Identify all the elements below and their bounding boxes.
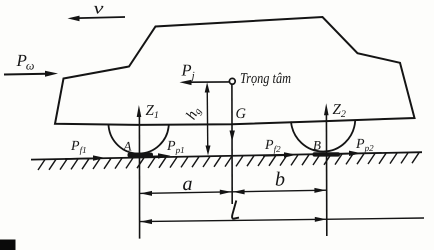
svg-text:B: B xyxy=(313,138,321,153)
svg-text:Trọng tâm: Trọng tâm xyxy=(240,71,291,87)
velocity arrow xyxy=(68,16,126,22)
svg-text:Pj: Pj xyxy=(181,61,195,83)
wheel B arc xyxy=(291,121,355,152)
force P_p2 arrow xyxy=(329,151,362,156)
svg-text:v: v xyxy=(94,0,105,18)
ground line xyxy=(31,152,422,159)
svg-text:G: G xyxy=(236,106,247,122)
dimension h_g double arrow xyxy=(205,82,211,155)
label L xyxy=(232,201,239,219)
svg-text:Pf2: Pf2 xyxy=(264,138,281,154)
force Z2 arrow with projection line xyxy=(324,103,329,236)
ground hatching xyxy=(38,153,419,170)
center of gravity circle (Trong tam) xyxy=(229,78,235,84)
force P_p1 arrow xyxy=(141,153,171,158)
svg-text:Pω: Pω xyxy=(16,51,35,73)
wheel B contact patch xyxy=(313,152,341,156)
svg-text:Pp2: Pp2 xyxy=(355,137,374,153)
svg-text:a: a xyxy=(183,173,193,195)
svg-text:b: b xyxy=(275,169,285,191)
svg-text:Z1: Z1 xyxy=(146,103,159,121)
black corner mark xyxy=(0,240,16,250)
force P_j arrow xyxy=(180,80,230,85)
svg-text:Pf1: Pf1 xyxy=(70,139,87,155)
force P_f1 arrow xyxy=(65,155,106,160)
weight G arrow xyxy=(230,84,235,204)
wheel A arc xyxy=(109,125,169,154)
svg-text:Z2: Z2 xyxy=(333,102,346,120)
dimension line a-b xyxy=(140,188,327,196)
car body outline xyxy=(55,17,415,125)
force Z1 arrow with projection line xyxy=(137,105,142,239)
wheel A contact patch xyxy=(128,153,154,158)
svg-text:hg: hg xyxy=(183,104,204,123)
svg-text:Pp1: Pp1 xyxy=(166,139,185,155)
svg-text:A: A xyxy=(123,139,132,154)
force P_f2 arrow xyxy=(263,152,297,157)
dimension line L with right extension xyxy=(140,217,424,224)
arrow P_omega xyxy=(4,71,58,77)
